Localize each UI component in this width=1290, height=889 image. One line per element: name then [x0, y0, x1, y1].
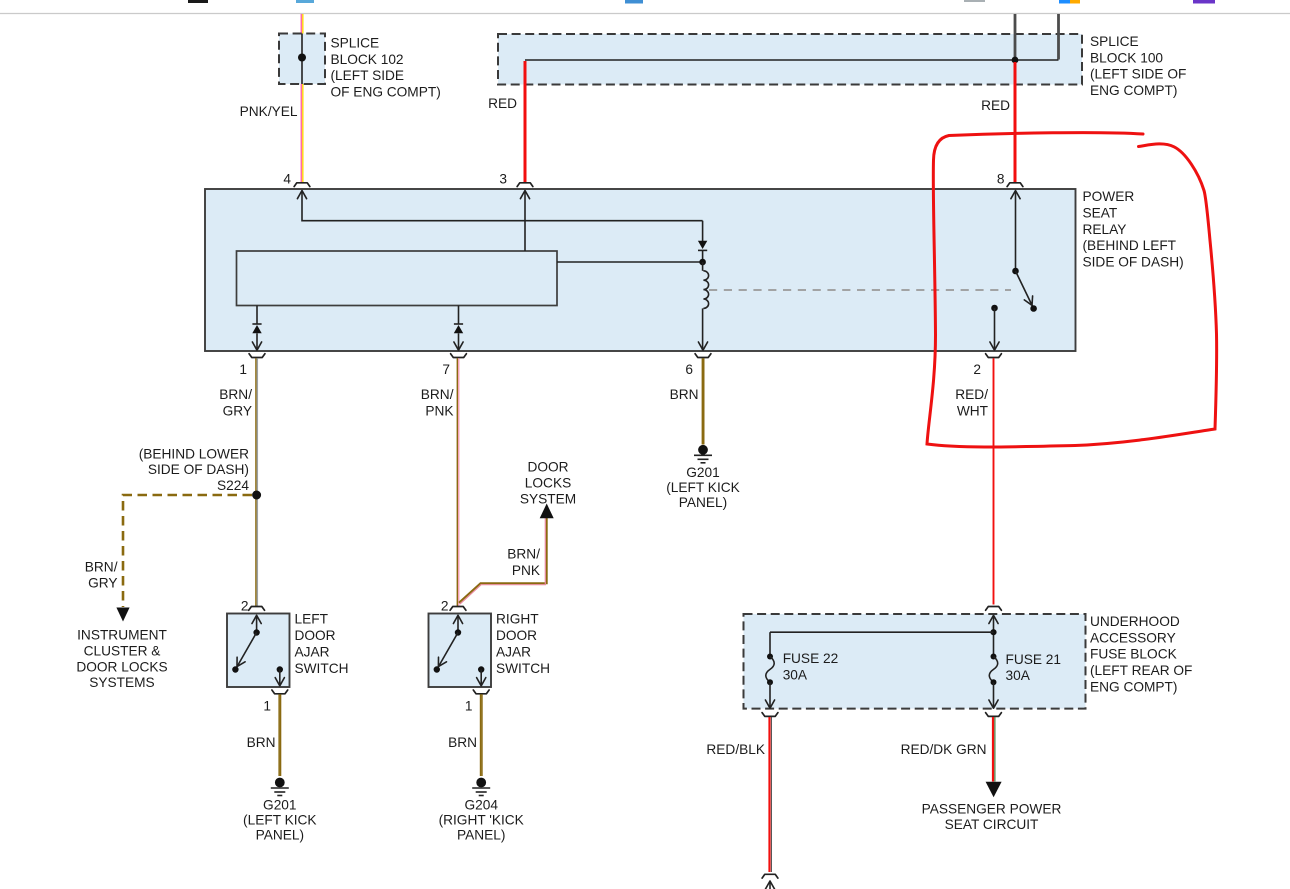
label BRN/GRY (dashed branch): [85, 559, 118, 590]
label LEFT DOOR AJAR SWITCH: [295, 612, 349, 677]
svg-text:BRN: BRN: [448, 735, 477, 750]
label BRN/PNK (branch): [507, 547, 540, 578]
svg-text:PANEL): PANEL): [256, 828, 304, 843]
splice block S102 (box): [279, 34, 325, 85]
fuse F21 30A: [989, 652, 1061, 708]
wire BRN left switch pin 1 to G201: [247, 694, 281, 776]
fuse block output connector (fuse 21): [986, 713, 1002, 717]
svg-text:LOCKS: LOCKS: [525, 476, 571, 491]
svg-text:1: 1: [263, 699, 271, 714]
svg-text:SIDE OF DASH): SIDE OF DASH): [1083, 254, 1184, 269]
svg-text:G204: G204: [464, 798, 498, 813]
left switch pin 2 connector: [241, 599, 265, 614]
label BRN/GRY (pin 1): [219, 387, 252, 418]
wire BRN/PNK relay pin 7 to right switch pin 2: [457, 358, 458, 606]
left door ajar switch (box): [227, 614, 290, 688]
svg-text:RED/: RED/: [955, 387, 988, 402]
label RED/WHT: [955, 387, 988, 418]
node: diode-coil junction: [699, 259, 706, 266]
svg-text:G201: G201: [686, 465, 719, 480]
svg-text:(LEFT SIDE: (LEFT SIDE: [331, 68, 405, 83]
splice S100 bus and junction: [525, 57, 1059, 64]
wire feed into splice block 100 (right vertical): [1057, 14, 1060, 60]
relay pin 2 connector: [973, 354, 1001, 377]
wire BRN right switch pin 1 to G204: [448, 694, 482, 776]
svg-text:AJAR: AJAR: [496, 645, 531, 660]
svg-text:FUSE 22: FUSE 22: [783, 651, 839, 666]
svg-text:SPLICE: SPLICE: [331, 36, 380, 51]
wire RED splice 100 to relay pin 8: [1014, 62, 1017, 183]
label UNDERHOOD ACCESSORY FUSE BLOCK: [1090, 614, 1192, 694]
fuse block internal bus: [770, 615, 998, 656]
wire BRN/PNK branch to door locks system: [459, 504, 554, 605]
svg-text:30A: 30A: [783, 668, 808, 683]
svg-text:INSTRUMENT: INSTRUMENT: [77, 628, 167, 643]
svg-text:SIDE OF DASH): SIDE OF DASH): [148, 462, 249, 477]
wire relay pin 4 internal: [297, 191, 702, 221]
svg-text:1: 1: [239, 362, 247, 377]
splice block S100 (box): [498, 34, 1082, 85]
svg-text:BRN/: BRN/: [507, 547, 540, 562]
splice S102 junction: [298, 34, 306, 85]
left switch pin 1 connector: [263, 690, 287, 714]
svg-text:DOOR: DOOR: [527, 460, 568, 475]
label SPLICE BLOCK 100: [1090, 34, 1186, 98]
relay pin 7 connector: [442, 354, 466, 377]
left switch contacts: [232, 615, 284, 686]
right switch contacts: [434, 615, 486, 686]
svg-text:UNDERHOOD: UNDERHOOD: [1090, 614, 1180, 629]
svg-text:SYSTEMS: SYSTEMS: [89, 675, 154, 690]
wire RED splice 100 to relay pin 3: [524, 61, 527, 183]
svg-text:2: 2: [241, 599, 249, 614]
diode at relay pin 1: [252, 306, 261, 351]
svg-text:7: 7: [442, 362, 450, 377]
ground G201 (left kick panel): [243, 778, 317, 843]
label DOOR LOCKS SYSTEM: [520, 460, 576, 507]
svg-text:PNK: PNK: [425, 403, 453, 418]
svg-text:RED: RED: [488, 96, 517, 111]
svg-text:CLUSTER &: CLUSTER &: [84, 644, 161, 659]
svg-text:SEAT: SEAT: [1083, 206, 1118, 221]
right door ajar switch (box): [429, 614, 492, 688]
svg-text:(LEFT SIDE OF: (LEFT SIDE OF: [1090, 67, 1186, 82]
svg-text:BLOCK 102: BLOCK 102: [331, 52, 404, 67]
svg-text:3: 3: [499, 172, 507, 187]
annotation: hand-drawn red loop around pin 8 / pin 2 circuit: [927, 133, 1217, 447]
svg-text:BRN/: BRN/: [421, 387, 454, 402]
svg-text:SYSTEM: SYSTEM: [520, 492, 576, 507]
underhood accessory fuse block (box): [744, 614, 1086, 709]
relay: POWER SEAT RELAY box: [205, 189, 1076, 351]
svg-text:FUSE BLOCK: FUSE BLOCK: [1090, 647, 1177, 662]
svg-text:RELAY: RELAY: [1083, 222, 1127, 237]
svg-text:RED/DK GRN: RED/DK GRN: [901, 742, 987, 757]
svg-text:ACCESSORY: ACCESSORY: [1090, 630, 1176, 645]
svg-text:PNK: PNK: [512, 563, 540, 578]
dashed wire BRN/GRY S224 to instrument cluster: [116, 495, 252, 622]
svg-text:POWER: POWER: [1083, 189, 1135, 204]
svg-text:BRN: BRN: [247, 735, 276, 750]
label RIGHT DOOR AJAR SWITCH: [496, 612, 550, 677]
svg-text:(BEHIND LEFT: (BEHIND LEFT: [1083, 238, 1177, 253]
relay coil: [698, 262, 708, 350]
svg-text:30A: 30A: [1006, 668, 1031, 683]
svg-text:1: 1: [465, 699, 473, 714]
svg-text:PANEL): PANEL): [457, 828, 505, 843]
terminal connector at bottom of RED/BLK: [762, 874, 778, 889]
svg-text:SWITCH: SWITCH: [295, 661, 349, 676]
label PASSENGER POWER SEAT CIRCUIT: [922, 802, 1062, 833]
right switch pin 1 connector: [465, 690, 489, 714]
label INSTRUMENT CLUSTER & DOOR LOCKS SYSTEMS: [76, 628, 167, 691]
svg-text:GRY: GRY: [88, 575, 117, 590]
wire relay pin 3 internal: [520, 191, 529, 252]
dashed mechanical link coil to contacts: [709, 289, 1011, 291]
svg-text:2: 2: [973, 362, 981, 377]
svg-text:(LEFT REAR OF: (LEFT REAR OF: [1090, 663, 1192, 678]
svg-text:OF ENG COMPT): OF ENG COMPT): [331, 85, 441, 100]
svg-text:BLOCK 100: BLOCK 100: [1090, 50, 1163, 65]
svg-text:2: 2: [441, 599, 449, 614]
relay pin 8 connector: [997, 172, 1023, 187]
svg-text:AJAR: AJAR: [295, 645, 330, 660]
svg-text:DOOR: DOOR: [295, 628, 336, 643]
svg-text:DOOR: DOOR: [496, 628, 537, 643]
ground G201 (left kick panel, pin 6): [666, 445, 740, 510]
svg-text:RIGHT: RIGHT: [496, 612, 539, 627]
svg-text:6: 6: [685, 362, 693, 377]
fuse block output connector (fuse 22): [762, 713, 778, 717]
svg-text:ENG COMPT): ENG COMPT): [1090, 83, 1177, 98]
svg-text:(RIGHT 'KICK: (RIGHT 'KICK: [439, 813, 524, 828]
svg-text:FUSE 21: FUSE 21: [1006, 652, 1062, 667]
wire feed into splice block 100 (left vertical): [1014, 14, 1017, 57]
svg-text:GRY: GRY: [223, 403, 252, 418]
svg-text:(LEFT KICK: (LEFT KICK: [243, 813, 317, 828]
svg-text:PNK/YEL: PNK/YEL: [240, 104, 298, 119]
wire module output to coil node: [557, 261, 703, 263]
svg-text:BRN/: BRN/: [219, 387, 252, 402]
diode (clamp diode above coil): [698, 221, 707, 259]
splice S224: [139, 447, 261, 500]
svg-text:WHT: WHT: [957, 403, 989, 418]
svg-text:DOOR LOCKS: DOOR LOCKS: [76, 659, 167, 674]
svg-text:(LEFT KICK: (LEFT KICK: [666, 480, 740, 495]
relay pin 6 connector: [685, 354, 711, 377]
svg-text:BRN: BRN: [670, 387, 699, 402]
svg-text:G201: G201: [263, 798, 296, 813]
fuse F22 30A: [765, 651, 838, 708]
svg-text:LEFT: LEFT: [295, 612, 329, 627]
wire RED/DK GRN fuse 21 output to passenger power seat circuit: [986, 717, 1002, 797]
label BRN/PNK (pin 7): [421, 387, 454, 418]
svg-text:4: 4: [283, 172, 291, 187]
svg-text:SEAT CIRCUIT: SEAT CIRCUIT: [945, 817, 1039, 832]
wire RED/BLK fuse 22 output: [770, 717, 772, 872]
relay internal control module (inner box): [237, 251, 558, 306]
diode at relay pin 7: [454, 306, 463, 351]
svg-text:SWITCH: SWITCH: [496, 661, 550, 676]
fuse block input connector (from RED/WHT): [986, 607, 1002, 611]
svg-text:RED/BLK: RED/BLK: [706, 742, 765, 757]
svg-text:8: 8: [997, 172, 1005, 187]
wire PNK/YEL from top into splice block 102: [301, 14, 303, 34]
wire PNK/YEL splice 102 to relay pin 4: [301, 84, 303, 183]
wire BRN relay pin 6 to G201: [670, 358, 704, 444]
relay pin 3 connector: [499, 172, 533, 187]
svg-text:PASSENGER POWER: PASSENGER POWER: [922, 802, 1062, 817]
svg-text:PANEL): PANEL): [679, 495, 727, 510]
label SPLICE BLOCK 102: [331, 36, 441, 100]
svg-text:S224: S224: [217, 478, 249, 493]
label POWER SEAT RELAY: [1083, 189, 1184, 269]
ground G204 (right kick panel): [439, 778, 524, 843]
svg-text:RED: RED: [981, 98, 1010, 113]
svg-text:ENG COMPT): ENG COMPT): [1090, 679, 1177, 694]
relay pin 4 connector: [283, 172, 310, 187]
relay pin 1 connector: [239, 354, 265, 377]
wire BRN/GRY relay pin 1 to S224 and left switch pin 2: [256, 358, 257, 606]
svg-text:BRN/: BRN/: [85, 559, 118, 574]
right switch pin 2 connector: [441, 599, 466, 614]
relay switch contact arm (pin 8 to pin 2): [990, 191, 1037, 351]
svg-text:(BEHIND LOWER: (BEHIND LOWER: [139, 447, 249, 462]
svg-text:SPLICE: SPLICE: [1090, 34, 1139, 49]
wire RED/WHT relay pin 2 to fuse block: [993, 358, 995, 604]
